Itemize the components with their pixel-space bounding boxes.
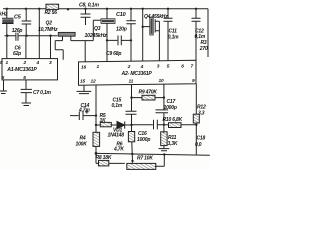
svg-text:5: 5 <box>167 64 170 70</box>
svg-text:3: 3 <box>157 64 160 70</box>
svg-text:4: 4 <box>36 60 40 66</box>
svg-text:A1-MC3361P: A1-MC3361P <box>6 67 37 73</box>
svg-text:kHz: kHz <box>0 12 8 18</box>
svg-text:4: 4 <box>140 64 144 70</box>
wire top supply rail <box>3 8 208 10</box>
svg-text:126p: 126p <box>12 28 23 34</box>
resistor R10 <box>164 124 196 126</box>
wire Q2 right leg to A2 pin16 <box>71 20 101 61</box>
wire A2 pin12 lead <box>95 85 97 153</box>
svg-text:Q4 455kHz: Q4 455kHz <box>144 14 168 20</box>
resistor R4 <box>93 132 100 146</box>
capacitor C5 <box>22 9 32 36</box>
svg-text:R8 18K: R8 18K <box>96 155 112 161</box>
svg-text:2: 2 <box>127 64 131 70</box>
svg-text:0,1m: 0,1m <box>168 34 179 40</box>
svg-text:1N4148: 1N4148 <box>108 133 125 139</box>
svg-text:1000p: 1000p <box>137 137 150 143</box>
svg-text:C10: C10 <box>116 12 126 18</box>
svg-text:15: 15 <box>80 78 85 84</box>
potentiometer R7 <box>127 163 156 169</box>
svg-text:1K: 1K <box>100 118 107 124</box>
svg-text:2: 2 <box>23 60 27 66</box>
svg-text:C17: C17 <box>167 99 176 105</box>
op-amp U A1 MC3361P box <box>2 59 58 80</box>
svg-text:10: 10 <box>159 78 164 84</box>
svg-text:4,7K: 4,7K <box>113 146 124 152</box>
wire Q2 left leg <box>55 41 63 60</box>
capacitor C6 <box>16 33 18 41</box>
wire A1 pin3 lead <box>50 36 52 59</box>
op-amp U A2 MC3361P box <box>79 60 197 85</box>
resistor R3 wire <box>207 9 209 57</box>
svg-text:3,3: 3,3 <box>198 110 205 116</box>
svg-text:R7 10K: R7 10K <box>137 156 153 162</box>
svg-text:C7 0,1m: C7 0,1m <box>33 90 52 96</box>
wire A2 pin10 lead / capacitor C17 <box>156 84 169 133</box>
svg-text:6: 6 <box>181 64 184 70</box>
node junction R6 line x bottom bus <box>131 153 133 155</box>
wire A1 pin1 lead <box>6 36 8 59</box>
wire A1 pin2 lead <box>25 36 27 59</box>
svg-text:1: 1 <box>6 60 9 66</box>
capacitor C8 <box>81 9 91 25</box>
svg-text:C18: C18 <box>197 136 206 142</box>
wire left bus <box>5 35 58 37</box>
resistor R5 <box>96 124 117 126</box>
capacitor C7 <box>21 80 32 106</box>
svg-text:Q3: Q3 <box>94 26 101 32</box>
ground R11 <box>159 146 170 151</box>
svg-text:1: 1 <box>97 64 100 70</box>
svg-text:3: 3 <box>49 60 52 66</box>
ground A1 pin5 left <box>0 80 7 94</box>
svg-text:62p: 62p <box>13 51 21 57</box>
node rail junction dots <box>6 8 198 11</box>
svg-text:R2 56: R2 56 <box>45 10 58 16</box>
capacitor C9 <box>107 36 131 46</box>
resistor R9 <box>132 97 164 99</box>
svg-text:120p: 120p <box>116 27 127 33</box>
svg-text:A2- MC3361P: A2- MC3361P <box>121 71 153 77</box>
wire bottom bus <box>96 153 210 155</box>
svg-text:0,1m: 0,1m <box>112 103 123 109</box>
svg-text:16: 16 <box>81 65 86 71</box>
svg-text:100K: 100K <box>76 142 88 148</box>
svg-text:C9 68p: C9 68p <box>106 51 121 57</box>
capacitor C16 <box>132 120 164 130</box>
crystal Q1 <box>2 9 14 36</box>
svg-text:9: 9 <box>192 78 195 84</box>
resistor R11 <box>161 132 167 146</box>
crystal Q4 <box>143 19 160 61</box>
svg-text:5: 5 <box>0 60 3 66</box>
svg-text:1000p: 1000p <box>164 105 177 111</box>
svg-text:0,0: 0,0 <box>195 142 202 148</box>
crystal Q3 <box>101 19 115 24</box>
svg-text:10245kHz: 10245kHz <box>85 33 108 39</box>
resistor R2 <box>46 4 59 9</box>
svg-text:R9 470K: R9 470K <box>139 90 158 96</box>
svg-text:10,7MHz: 10,7MHz <box>38 27 58 33</box>
capacitor C12 <box>192 9 201 61</box>
svg-text:3,3K: 3,3K <box>168 141 178 147</box>
wire R6 to potentiometer wiper <box>131 142 134 162</box>
svg-text:4,7m: 4,7m <box>78 108 90 114</box>
svg-text:R3: R3 <box>201 40 207 46</box>
capacitor C10 <box>126 9 135 62</box>
capacitor C11 <box>164 9 173 61</box>
crystal Q2 <box>58 32 75 36</box>
resistor R6 <box>128 132 134 142</box>
wire A2 pin1 lead <box>106 9 108 62</box>
svg-text:7: 7 <box>191 64 194 70</box>
svg-text:C5: C5 <box>14 14 22 20</box>
svg-text:12: 12 <box>91 78 96 84</box>
wire A2 pin9 lead / resistor R12 <box>195 84 197 155</box>
svg-text:11: 11 <box>129 79 134 85</box>
wire A2 pin11 lead / capacitor C15 <box>126 85 137 132</box>
svg-text:C8, 0,1m: C8, 0,1m <box>79 3 99 9</box>
wire A2 pin4 lead <box>142 9 144 61</box>
wire A1 pin4 lead <box>38 9 40 59</box>
resistor R8 <box>96 153 125 163</box>
capacitor C14 electrolytic <box>70 110 96 120</box>
svg-text:R10 6,8K: R10 6,8K <box>163 117 183 123</box>
diode VD1 <box>117 121 132 128</box>
svg-text:270: 270 <box>199 46 208 52</box>
svg-text:R4: R4 <box>80 135 86 141</box>
svg-text:Q2: Q2 <box>46 20 53 26</box>
ground A2 pin15 <box>77 85 92 94</box>
